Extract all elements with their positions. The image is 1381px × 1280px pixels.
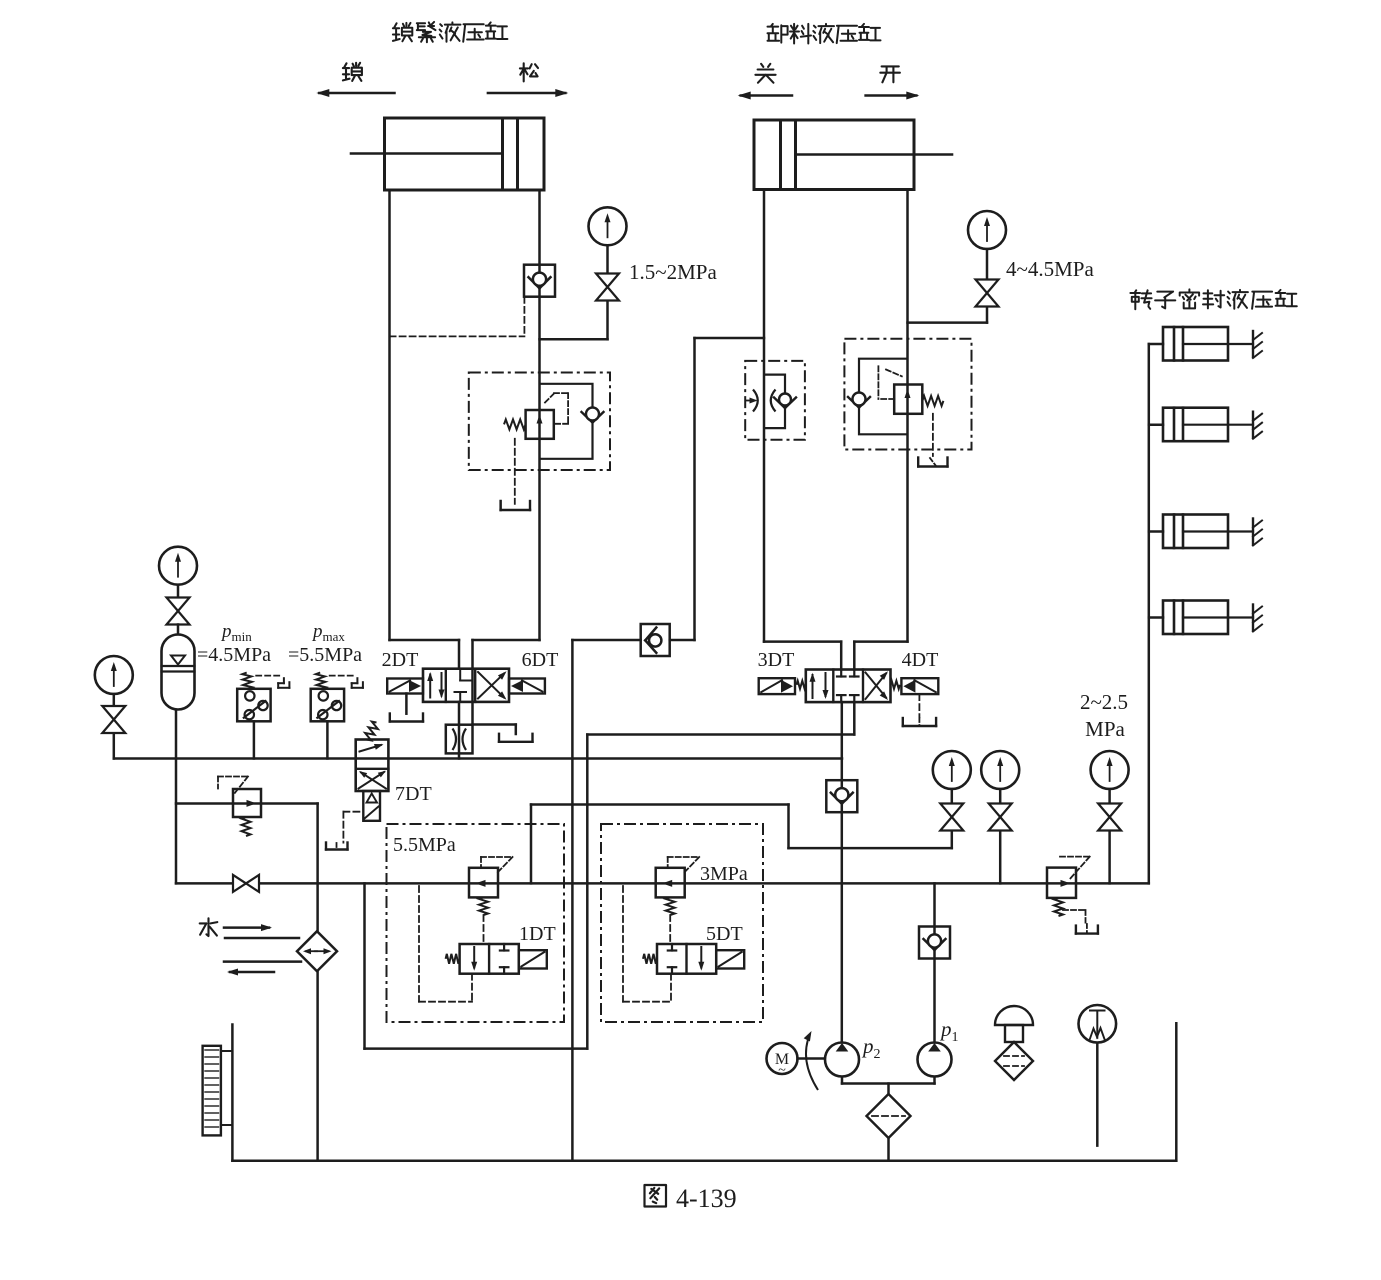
wire: locking cylinder right drop line B	[538, 190, 541, 640]
wire: thermometer dip line	[1096, 1043, 1099, 1146]
gate valve on bypass return line	[233, 875, 246, 892]
wire: valve1 port B horizontal	[473, 639, 540, 642]
spring of left relief valve	[242, 817, 251, 836]
label: 锁紧液压缸 (locking hydraulic cylinder)	[393, 23, 412, 41]
wire: manifold stub to rotor cylinder 1	[1149, 343, 1163, 346]
wire: T-return from valve 3DT	[853, 702, 856, 734]
solenoid 3DT	[759, 678, 795, 694]
spring of 1DT	[446, 954, 460, 964]
wire: valve1 port A horizontal	[390, 639, 460, 642]
svg-text:6DT: 6DT	[522, 649, 559, 671]
pump p1	[918, 1043, 952, 1077]
relief element 5.5MPa	[469, 868, 498, 898]
wire: level gauge stand pipe	[231, 1025, 234, 1161]
spring left of 3DT valve	[797, 681, 806, 689]
directional valve 3DT/4DT (3-position 4-way)	[806, 670, 891, 703]
svg-text:3MPa: 3MPa	[700, 863, 748, 885]
label: 卸料液压缸 (unloading hydraulic cylinder)	[768, 24, 788, 43]
wire: port risers into valve 3DT	[840, 642, 843, 670]
pilot dashes of reducing valve	[1060, 856, 1090, 858]
check valve on pump p2 riser	[826, 780, 857, 812]
cylinder1 rod	[351, 152, 503, 155]
relief valve on pump line (left)	[233, 789, 261, 817]
solenoid of 5DT	[716, 950, 744, 968]
drain bracket for valve1 T port	[498, 734, 500, 742]
check valve in counterbalance bypass	[848, 397, 859, 408]
spring of 5.5MPa relief	[479, 897, 488, 915]
wire: valve1 P line through throttle to main line	[458, 702, 461, 759]
wire: manifold stub to rotor cylinder 3	[1149, 530, 1163, 533]
svg-text:5DT: 5DT	[706, 923, 743, 945]
wire: manifold stub to rotor cylinder 4	[1149, 616, 1163, 619]
air breather / filler	[995, 1006, 1033, 1025]
pilot dashes of 5.5MPa relief	[481, 856, 513, 858]
svg-text:4~4.5MPa: 4~4.5MPa	[1006, 257, 1094, 281]
svg-text:=5.5MPa: =5.5MPa	[288, 644, 362, 666]
pilot return dashes of 5.5MPa	[418, 886, 420, 1002]
wire: Pmax pressure switch tap	[326, 721, 329, 758]
solenoid 6DT	[509, 679, 545, 694]
solenoid 4DT	[901, 678, 938, 694]
wire: port B riser through valve 2DT	[471, 640, 474, 725]
wire: pilot line to pressure gauges A	[531, 803, 789, 806]
wire: filter to tank line	[887, 1138, 890, 1161]
spring of 3MPa relief	[666, 897, 675, 915]
throttle under valve1 P port	[446, 725, 473, 754]
pressure switch Pmin	[237, 689, 270, 722]
spring of 5DT	[643, 954, 657, 964]
gauge: rotor-seal line gauge 2~2.5MPa	[1091, 751, 1129, 789]
wire: manifold stub to rotor cylinder 2	[1149, 423, 1163, 426]
drain of counterbalance valve (dashed)	[932, 414, 934, 456]
cylinder: locking hydraulic cylinder body	[385, 118, 545, 190]
valve: shutoff under gauge1	[596, 274, 619, 288]
wire: drain branch from cyl2 left line	[693, 338, 696, 640]
directional valve 2DT/6DT (3-position 4-way)	[423, 669, 509, 702]
cylinder2 rod	[796, 153, 953, 156]
wire: accumulator drop line	[175, 710, 178, 884]
svg-text:2~2.5: 2~2.5	[1080, 690, 1128, 714]
wire: gauge C drop	[1108, 831, 1111, 884]
wire: tank right end riser	[1175, 1023, 1178, 1160]
spring of reducing valve	[1054, 898, 1063, 916]
drain bracket under 2DT solenoid	[405, 694, 408, 714]
label: 关 (close)	[755, 64, 775, 83]
pump p2	[825, 1043, 859, 1077]
anchor: wall mount of rotor cylinder 3	[1252, 519, 1254, 545]
svg-text:1.5~2MPa: 1.5~2MPa	[629, 260, 717, 284]
wire: valve1 T drain to tank bracket	[473, 723, 516, 726]
thermometer	[1079, 1005, 1117, 1043]
suction filter	[867, 1094, 911, 1138]
wire: tank bottom line	[232, 1159, 1176, 1162]
valve: shutoff under left gauge	[102, 706, 125, 720]
valve assembly: solenoid unloading relief 3MPa	[601, 824, 763, 1022]
cylinder: rotor seal cylinder 2	[1163, 408, 1228, 442]
arrow: lock direction (left)	[319, 92, 394, 95]
cylinder2 piston	[779, 120, 782, 190]
svg-text:4DT: 4DT	[902, 649, 939, 671]
wire: relief outlet drop / cooler line to tank	[316, 804, 319, 1161]
pilot dashes of 3MPa relief	[668, 856, 700, 858]
valve: shutoff under gauge B	[989, 804, 1012, 818]
valve: shutoff under gauge2	[976, 280, 999, 294]
throttle element	[753, 390, 758, 412]
label: 水 (water)	[200, 918, 218, 936]
solenoid of 7DT (vertical)	[363, 791, 380, 821]
water flow arrows	[224, 926, 269, 929]
wire: pump p1 riser to bypass line	[933, 883, 936, 1042]
valve: shutoff under accumulator gauge	[167, 598, 190, 612]
svg-text:~: ~	[778, 1063, 786, 1078]
cylinder: rotor seal cylinder 4	[1163, 601, 1228, 635]
cylinder: rotor seal cylinder 3	[1163, 515, 1228, 549]
wire: pump suction manifold	[841, 1076, 844, 1083]
check valve in balance valve bypass	[582, 412, 593, 423]
gauge: gauge B on bypass line	[981, 751, 1019, 789]
drain of 7DT solenoid (dashed)	[343, 811, 363, 813]
wire: valve2 port B horizontal	[854, 640, 907, 643]
wire: port A riser into valve 2DT	[458, 640, 461, 669]
cylinder1 piston	[501, 118, 504, 190]
wire: unloading cylinder left drop line	[763, 190, 766, 642]
wire: main pressure line from pump p2	[114, 757, 842, 760]
wire: gauge1 branch to cylinder line	[606, 301, 609, 340]
pilot solenoid valve 5DT	[657, 944, 716, 974]
valve assembly: balance valve (locking cylinder)	[469, 373, 610, 471]
svg-text:3DT: 3DT	[758, 649, 795, 671]
reducing valve for rotor seal line	[1047, 868, 1076, 898]
pilot dashes of counterbalance valve	[878, 398, 894, 400]
wire: gauge2 branch to cylinder line	[986, 307, 989, 323]
electric motor M	[767, 1043, 798, 1074]
cylinder: rotor seal cylinder 1	[1163, 327, 1228, 361]
gauge: gauge A on pilot line	[933, 751, 971, 789]
drain bracket under 4DT solenoid (dashed pipe)	[918, 694, 920, 717]
anchor: wall mount of rotor cylinder 2	[1252, 412, 1254, 438]
label: 松 (release)	[520, 63, 538, 81]
wire: bypass return line with gate valve	[176, 882, 1149, 885]
wire: unloading-relief vertical link	[530, 805, 533, 884]
gauge: accumulator pressure gauge	[159, 547, 197, 585]
solenoid 2DT	[387, 679, 423, 694]
solenoid of 1DT	[519, 950, 547, 968]
pilot solenoid valve 1DT	[460, 944, 519, 974]
spring above 7DT valve	[365, 722, 378, 741]
valve assembly: solenoid unloading relief 5.5MPa	[387, 824, 565, 1022]
wire: gauge B drop	[999, 831, 1002, 884]
arrow: close direction (left)	[741, 94, 792, 97]
relief element of balance valve	[526, 410, 554, 439]
check valve on drain line (between cylinders)	[641, 624, 670, 656]
label: 锁 (lock)	[343, 63, 362, 81]
caption: 图 4-139	[645, 1185, 667, 1207]
wire: valve2 port A horizontal	[764, 640, 841, 643]
accumulator	[162, 635, 195, 710]
pressure switch Pmax	[311, 689, 344, 722]
svg-text:4-139: 4-139	[676, 1184, 737, 1213]
vent dashed line to pilot valve 5DT	[669, 915, 671, 944]
wire: Pmin pressure switch tap	[253, 721, 256, 758]
relief element of counterbalance valve	[894, 385, 922, 414]
label: 转子密封液压缸 (rotor seal hydraulic cylinders)	[1130, 290, 1151, 309]
gauge: pump p2 line gauge (left)	[95, 656, 133, 694]
vent dashed line to pilot valve 1DT	[483, 915, 485, 944]
wire: rotor-seal manifold riser	[1148, 344, 1151, 883]
label: 开 (open)	[880, 66, 900, 82]
check valve in throttle bypass	[774, 398, 785, 409]
motor shaft	[798, 1057, 826, 1060]
pilot return dashes of 3MPa	[622, 886, 624, 1002]
arrow: open direction (right)	[866, 94, 917, 97]
svg-text:7DT: 7DT	[395, 783, 432, 805]
pilot line of check valve (dashed)	[523, 297, 525, 337]
cylinder: unloading hydraulic cylinder body	[754, 120, 914, 190]
valve: shutoff under 2~2.5MPa gauge	[1098, 804, 1121, 818]
pilot dashes of left relief valve	[218, 776, 248, 778]
drain of balance valve (dashed)	[514, 439, 516, 504]
relief element 3MPa	[656, 868, 685, 898]
arrow: release direction (right)	[488, 92, 565, 95]
wire: drain line through check valve to tank	[572, 639, 640, 642]
anchor: wall mount of rotor cylinder 1	[1252, 331, 1254, 357]
spring right of 3DT valve	[891, 681, 900, 689]
spring of balance valve	[504, 419, 526, 429]
svg-text:MPa: MPa	[1085, 717, 1125, 741]
wire: locking cylinder left drop line A	[388, 190, 391, 640]
wire: left gauge branch	[113, 733, 116, 759]
level gauge	[203, 1046, 221, 1136]
svg-text:=4.5MPa: =4.5MPa	[197, 644, 271, 666]
svg-text:1DT: 1DT	[519, 923, 556, 945]
pilot dashes of balance valve	[545, 394, 554, 403]
anchor: wall mount of rotor cylinder 4	[1252, 605, 1254, 631]
valve 7DT (2-position unloading valve)	[356, 740, 389, 792]
wire: unloading cylinder right drop line	[906, 190, 909, 642]
valve: pilot-operated check valve on locking cylinder line	[524, 265, 555, 297]
valve: shutoff under gauge A	[940, 804, 963, 818]
valve assembly: one-way throttle (unloading cylinder close line)	[745, 361, 805, 440]
gauge: pressure gauge 1.5~2MPa circuit	[589, 207, 627, 245]
valve assembly: counterbalance valve (unloading cylinder)	[844, 339, 971, 450]
spring of counterbalance valve	[922, 396, 943, 406]
svg-text:2DT: 2DT	[382, 649, 419, 671]
wire: pump p2 riser to valve 3DT P port	[841, 702, 844, 1043]
check valve on pump p1 riser	[919, 927, 950, 959]
svg-text:5.5MPa: 5.5MPa	[393, 834, 456, 856]
rotation direction arrow	[806, 1034, 818, 1090]
water cooler (heat exchanger)	[297, 931, 337, 971]
drain dashes of reducing valve	[1063, 909, 1086, 911]
wire: relief valve branch line	[176, 802, 318, 805]
gauge: pressure gauge 4~4.5MPa circuit	[968, 211, 1006, 249]
